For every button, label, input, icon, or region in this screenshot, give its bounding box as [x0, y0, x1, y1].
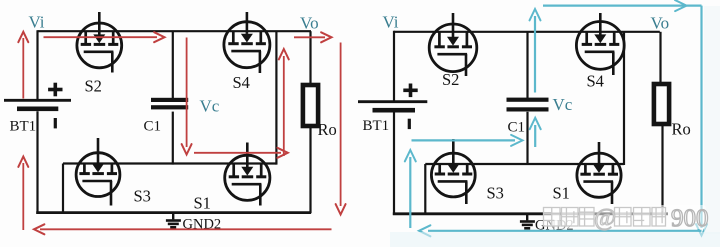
capacitor C1 right	[507, 98, 549, 112]
wire: S1 riser to top rail	[275, 31, 277, 164]
svg-text:Vc: Vc	[200, 97, 220, 116]
svg-text:C1: C1	[144, 119, 162, 135]
red arrow: along middle rail through S1	[194, 152, 281, 154]
wire: C1 right branch lower	[526, 112, 528, 165]
wire: Ro to bottom rail	[309, 126, 311, 213]
svg-text:S2: S2	[442, 70, 459, 89]
svg-text:Vo: Vo	[300, 14, 319, 33]
red arrow: along top rail through S2	[44, 36, 158, 38]
transistor S1	[225, 143, 270, 206]
wire: Ro right to bottom rail	[661, 124, 663, 214]
cyan arrow: bottom outer leftwards	[428, 230, 702, 232]
transistor S3	[76, 138, 120, 206]
resistor Ro	[303, 85, 318, 126]
svg-text:C1: C1	[508, 120, 526, 136]
transistor S2 right	[429, 13, 477, 76]
cyan arrow: rightwards above S3 to C1	[412, 139, 516, 141]
svg-text:S1: S1	[553, 184, 570, 203]
wire: C1 branch upper	[172, 31, 174, 98]
red arrow: bottom-left up to battery	[22, 163, 24, 230]
wire: right bottom rail	[393, 212, 668, 215]
svg-text:Vi: Vi	[29, 13, 45, 32]
wire: middle rail drop to bottom	[62, 164, 64, 213]
svg-text:S1: S1	[194, 194, 211, 213]
transistor S4	[224, 12, 270, 73]
svg-text:BT1: BT1	[10, 119, 37, 135]
svg-text:Vi: Vi	[383, 13, 399, 32]
wire: right battery branch bottom	[393, 111, 395, 214]
cyan wire: top outer run	[543, 4, 702, 6]
red arrow: down right outer return	[340, 43, 342, 207]
transistor S4 right	[576, 13, 624, 75]
watermark band	[551, 205, 706, 229]
battery BT1	[4, 83, 71, 129]
transistor S2	[77, 12, 122, 73]
watermark glyphs	[544, 208, 561, 227]
wire: right middle rail drop	[424, 164, 426, 214]
svg-text:S4: S4	[233, 73, 250, 92]
red arrow: bottom return leftwards	[40, 228, 332, 230]
transistor S1 right	[577, 142, 621, 204]
wire: C1 right branch upper	[526, 32, 528, 98]
svg-text:Ro: Ro	[672, 120, 691, 139]
wire: C1 branch lower	[172, 112, 174, 165]
svg-text:BT1: BT1	[363, 118, 390, 134]
wire: right side to Ro right	[659, 32, 661, 85]
svg-text:S3: S3	[487, 184, 504, 203]
red arrow: down through C1	[186, 38, 188, 148]
wire: right side to Ro	[309, 31, 311, 85]
svg-text:@: @	[594, 205, 616, 231]
wire: right battery branch top	[393, 31, 395, 101]
resistor Ro right	[654, 84, 669, 124]
battery BT1 right	[358, 84, 427, 130]
transistor S3 right	[431, 139, 475, 204]
svg-text:Vc: Vc	[553, 95, 573, 114]
red arrow: top right toward load	[294, 36, 325, 38]
ground GND2 right	[520, 215, 535, 228]
wire: right top rail	[394, 31, 660, 33]
svg-text:S4: S4	[587, 72, 604, 91]
wire: left side (battery branch) bottom	[36, 111, 38, 213]
cyan arrow: up from bottom return into S3 branch	[409, 157, 411, 228]
svg-text:S3: S3	[134, 187, 151, 206]
cyan arrow: right outer down	[700, 6, 702, 228]
wire: S1 right riser	[623, 32, 625, 165]
svg-text:S2: S2	[85, 77, 102, 96]
wire: left side (battery branch) top	[36, 30, 38, 99]
ground GND2-left	[166, 214, 181, 227]
red arrow: up S1 riser	[283, 56, 285, 156]
wire: left top rail	[38, 30, 312, 32]
cyan arrow: long up through C1 and top rail	[534, 16, 536, 93]
cyan arrow: small up under C1	[534, 125, 536, 147]
wire: middle rail (S3-S1)	[63, 162, 276, 164]
svg-text:900: 900	[671, 205, 709, 232]
wire: right middle rail	[425, 163, 624, 165]
wire: bottom rail left circuit	[36, 211, 311, 214]
capacitor C1	[151, 98, 188, 110]
faint background tints	[390, 232, 720, 247]
red arrow: up past battery to Vi	[22, 38, 24, 99]
svg-text:Ro: Ro	[318, 120, 337, 139]
svg-text:Vo: Vo	[651, 14, 670, 33]
